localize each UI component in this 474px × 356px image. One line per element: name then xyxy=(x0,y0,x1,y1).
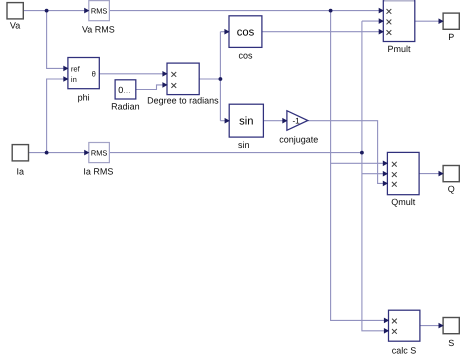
wire Ia to Ia RMS xyxy=(28,152,89,154)
wire cos to Pmult input3 xyxy=(262,31,383,33)
block phi xyxy=(68,58,99,103)
block sin xyxy=(229,104,263,150)
arrowhead Va RMS input xyxy=(84,8,89,14)
svg-text:S: S xyxy=(448,338,454,348)
wire branch Va down to phi ref xyxy=(47,11,68,69)
input port Ia xyxy=(12,145,28,177)
wire Ia RMS branch to Pmult input2 xyxy=(362,20,383,22)
wire sin to conjugate xyxy=(263,120,287,122)
svg-text:Radian: Radian xyxy=(111,101,140,111)
arrowhead phi in input xyxy=(63,76,68,82)
wire Va RMS to Pmult input1 xyxy=(109,10,383,12)
wire calc S to S xyxy=(420,325,443,327)
wire Ia RMS vertical trunk xyxy=(362,21,389,331)
output port P xyxy=(443,13,459,42)
arrowhead Ia RMS input xyxy=(84,150,89,156)
wire to sin input xyxy=(220,120,229,122)
svg-text:cos: cos xyxy=(238,50,253,60)
svg-text:sin: sin xyxy=(238,140,250,150)
svg-text:0...: 0... xyxy=(118,85,131,95)
svg-text:RMS: RMS xyxy=(91,148,107,157)
arrowhead Pmult input2 xyxy=(379,18,384,24)
arrowhead Degree to radians input1 xyxy=(162,71,167,77)
block Radian xyxy=(111,80,140,112)
svg-text:θ: θ xyxy=(92,70,96,79)
arrowhead Degree to radians input2 xyxy=(162,82,167,88)
arrowhead Qmult input3 xyxy=(383,181,388,187)
block calc S xyxy=(389,310,420,355)
wire Va to Va RMS xyxy=(24,10,89,12)
output port S xyxy=(443,318,459,349)
svg-text:RMS: RMS xyxy=(91,6,107,15)
output port Q xyxy=(443,166,459,195)
wire Ia RMS branch to Qmult input2 xyxy=(362,173,388,175)
block Qmult xyxy=(387,152,419,207)
wire Radian to Degree to radians input2 xyxy=(136,85,167,90)
arrowhead Q input xyxy=(439,171,444,177)
arrowhead calc S input1 xyxy=(384,318,389,324)
wire Ia RMS to junction xyxy=(109,152,362,154)
block cos xyxy=(229,16,262,61)
svg-text:-1: -1 xyxy=(292,116,300,125)
wire Pmult to P xyxy=(415,20,443,22)
svg-text:Pmult: Pmult xyxy=(387,44,411,54)
arrowhead cos input xyxy=(224,29,229,35)
svg-text:Ia RMS: Ia RMS xyxy=(83,167,113,177)
svg-text:phi: phi xyxy=(78,93,90,103)
block Pmult xyxy=(383,1,415,54)
junction dot Va RMS branch xyxy=(329,9,333,13)
input port Va xyxy=(7,3,23,31)
wire Qmult to Q xyxy=(419,173,443,175)
arrowhead Pmult input1 xyxy=(379,8,384,14)
arrowhead conjugate input xyxy=(282,118,287,124)
block Degree to radians xyxy=(147,63,219,105)
arrowhead calc S input2 xyxy=(384,328,389,334)
gain conjugate xyxy=(279,111,318,145)
wire trunk vertical cos sin xyxy=(219,32,221,121)
arrowhead S input xyxy=(439,323,444,329)
svg-text:conjugate: conjugate xyxy=(279,135,318,145)
svg-text:ref: ref xyxy=(71,64,81,73)
wire branch Ia up to phi in xyxy=(47,79,68,153)
junction dot Ia xyxy=(45,151,49,155)
arrowhead Pmult input3 xyxy=(379,29,384,35)
svg-text:Va RMS: Va RMS xyxy=(82,24,115,34)
arrowhead sin input xyxy=(225,118,230,124)
svg-text:Q: Q xyxy=(448,184,455,194)
junction dot Va xyxy=(45,9,49,13)
arrowhead Qmult input2 xyxy=(383,171,388,177)
wire to cos input xyxy=(220,31,229,33)
svg-text:P: P xyxy=(448,32,454,42)
wire Degree to radians output trunk xyxy=(199,78,220,80)
wire Va RMS branch down to Qmult input1 and calc S input1 xyxy=(331,11,389,321)
svg-text:cos: cos xyxy=(237,27,255,39)
junction dot Ia RMS branch xyxy=(360,151,364,155)
arrowhead Qmult input1 xyxy=(383,161,388,167)
svg-text:sin: sin xyxy=(239,116,253,128)
junction dot Degree to radians output xyxy=(219,77,223,81)
arrowhead phi ref input xyxy=(63,66,68,72)
arrowhead P input xyxy=(439,18,444,24)
svg-text:Va: Va xyxy=(10,21,20,31)
svg-text:Degree to radians: Degree to radians xyxy=(147,95,219,105)
svg-text:Ia: Ia xyxy=(17,167,25,177)
svg-text:calc S: calc S xyxy=(392,346,417,356)
wire conjugate to Qmult input3 xyxy=(308,121,388,184)
svg-text:in: in xyxy=(71,75,77,84)
svg-text:Qmult: Qmult xyxy=(391,197,416,207)
wire phi theta to Degree to radians input1 xyxy=(99,73,167,75)
wire Va RMS branch to Qmult input1 xyxy=(331,162,388,164)
block Va RMS xyxy=(82,1,115,35)
block Ia RMS xyxy=(83,143,113,177)
